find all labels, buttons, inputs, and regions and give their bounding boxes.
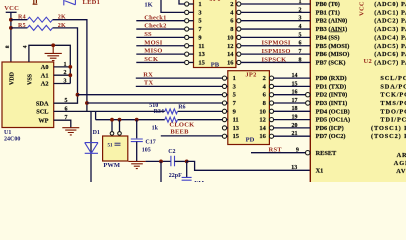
svg-text:ISPMISO: ISPMISO [262, 48, 291, 55]
svg-text:1: 1 [198, 1, 201, 8]
wire PWM pin2 drop [119, 120, 121, 132]
ground (WP) [62, 128, 79, 135]
svg-text:PB0 (T0): PB0 (T0) [316, 1, 340, 8]
svg-text:15: 15 [198, 59, 204, 66]
node VCC-R4 junction [9, 18, 13, 22]
underline on AIN1 [331, 31, 343, 33]
power VCC [4, 5, 19, 62]
capacitor C2 22pF [168, 149, 187, 179]
svg-text:13: 13 [198, 51, 204, 58]
node PWM pin2 junction [118, 118, 122, 122]
svg-text:4: 4 [299, 24, 302, 30]
net SS [136, 31, 184, 38]
svg-text:C17: C17 [145, 140, 155, 146]
svg-text:5: 5 [198, 18, 201, 25]
net MISO [136, 48, 184, 55]
svg-text:C2: C2 [168, 149, 175, 155]
pin PWM-1 circle [110, 132, 114, 136]
svg-text:AVCC: AVCC [396, 168, 406, 175]
svg-text:3: 3 [299, 16, 302, 22]
wire JP2.10 to U2.18 [274, 110, 311, 112]
svg-text:VSS: VSS [27, 73, 33, 85]
svg-text:20: 20 [292, 123, 298, 129]
svg-text:(ADC3) PA3: (ADC3) PA3 [374, 26, 406, 33]
svg-text:14: 14 [227, 51, 234, 58]
svg-text:13: 13 [233, 125, 239, 132]
wire JP1.8 to U2.4 [241, 28, 310, 30]
svg-text:8: 8 [230, 26, 233, 33]
svg-text:PWM: PWM [103, 162, 120, 169]
diode LED1 (cut off at top) [64, 0, 100, 6]
wire JP1.10 to U2.5 [241, 36, 310, 38]
svg-text:1k: 1k [152, 125, 159, 131]
svg-text:TCK/PC2: TCK/PC2 [380, 92, 406, 99]
net RX [136, 71, 223, 78]
svg-text:RESET: RESET [316, 150, 337, 157]
svg-text:15: 15 [233, 133, 239, 140]
wire SDA rail [78, 94, 223, 96]
pin 7 WP [54, 115, 71, 128]
pin 6 SCL [54, 103, 96, 112]
JP2 interior pin numbers [233, 75, 239, 140]
svg-text:WP: WP [38, 117, 48, 124]
connector JP2 body [228, 71, 270, 145]
svg-text:PB6 (MISO): PB6 (MISO) [316, 51, 350, 58]
svg-text:10: 10 [227, 34, 233, 41]
capacitor C17 105 [131, 139, 156, 161]
svg-text:2: 2 [230, 1, 233, 8]
pin 5 SDA [54, 95, 78, 104]
svg-text:16: 16 [259, 133, 266, 140]
svg-text:1: 1 [299, 0, 302, 5]
resistor R34 510 (on wire to JP2 pin9) [96, 103, 223, 115]
svg-text:CLOCK: CLOCK [169, 122, 194, 129]
svg-text:AGND: AGND [394, 160, 406, 167]
JP2 left pin circles [222, 76, 227, 138]
wire X1 net to U2 pin13 [187, 161, 310, 170]
svg-text:(TOSC1) PC6: (TOSC1) PC6 [371, 125, 406, 132]
svg-text:ISPMOSI: ISPMOSI [262, 40, 291, 47]
node VCC-R5 junction [9, 26, 13, 30]
svg-text:24C00: 24C00 [4, 137, 20, 143]
svg-text:TX: TX [144, 80, 154, 87]
svg-text:RX: RX [143, 71, 153, 78]
wire JP2.14 to U2.20 [274, 127, 311, 129]
svg-text:AREF: AREF [397, 152, 406, 159]
svg-text:PD1 (TXD): PD1 (TXD) [316, 83, 347, 90]
JP2 right pin circles [269, 76, 273, 138]
svg-text:PD: PD [246, 137, 255, 144]
svg-text:5: 5 [299, 32, 302, 38]
pin 1 A0 [54, 62, 73, 69]
svg-text:14: 14 [259, 125, 266, 132]
net Check1 [136, 14, 184, 21]
resistor fragment (cut text at top) [33, 0, 38, 4]
svg-text:(ADC4) PA4: (ADC4) PA4 [374, 34, 406, 41]
JP1 left pin circles [185, 2, 194, 65]
wire JP1.14 to U2.7 ISPMISO [241, 53, 310, 55]
svg-text:9: 9 [198, 34, 201, 41]
svg-text:SCL: SCL [36, 109, 48, 116]
svg-text:PB7 (SCK): PB7 (SCK) [316, 59, 346, 66]
wire D1 net vertical [90, 111, 92, 182]
resistor R6 1k (on CLOCK wire) [152, 117, 178, 131]
svg-text:5: 5 [233, 92, 236, 99]
svg-text:SDA: SDA [36, 100, 49, 107]
svg-text:19: 19 [292, 115, 298, 121]
svg-text:(ADC0) PA0: (ADC0) PA0 [374, 1, 406, 8]
pin 3 A2 [54, 78, 71, 84]
svg-text:A0: A0 [41, 64, 49, 71]
svg-text:3: 3 [198, 9, 201, 16]
svg-text:(ADC1) PA1: (ADC1) PA1 [374, 9, 406, 16]
pin 2 A1 [54, 70, 73, 77]
net MOSI [136, 39, 184, 46]
svg-text:7: 7 [299, 49, 302, 55]
svg-text:D1: D1 [93, 130, 100, 136]
svg-text:SCL/PC0: SCL/PC0 [380, 75, 406, 82]
svg-text:PD4 (OC1B): PD4 (OC1B) [316, 108, 350, 115]
svg-text:JP1: JP1 [210, 0, 221, 3]
wire JP2.6 to U2.16 (INT0 bubble) [274, 94, 306, 96]
svg-text:(ADC7) PA7: (ADC7) PA7 [374, 59, 406, 66]
svg-text:16: 16 [227, 59, 234, 66]
wire JP2.2 to U2.14 [274, 77, 311, 79]
svg-text:TDO/PC4: TDO/PC4 [380, 108, 406, 115]
U2 interior left labels PB [316, 1, 350, 66]
svg-text:12: 12 [259, 117, 265, 124]
capacitor C3 (bottom, cut off) [182, 161, 205, 186]
node PWM pin1 junction [110, 118, 114, 122]
svg-text:4: 4 [23, 45, 29, 48]
svg-text:PD5 (OC1A): PD5 (OC1A) [316, 117, 350, 124]
svg-text:PB2 (AIN0): PB2 (AIN0) [316, 18, 348, 25]
svg-text:8: 8 [5, 45, 11, 48]
svg-text:JP2: JP2 [245, 72, 256, 79]
wire JP2.4 to U2.15 [274, 85, 311, 87]
resistor R4 2K [11, 15, 87, 103]
svg-text:PB1 (T1): PB1 (T1) [316, 9, 340, 16]
JP1 interior pin numbers [198, 1, 204, 66]
svg-text:R6: R6 [178, 104, 185, 110]
svg-text:(ADC5) PA5: (ADC5) PA5 [374, 43, 406, 50]
wire JP1.2 to U2.1 [241, 3, 310, 5]
svg-text:8: 8 [299, 57, 302, 63]
U2 interior left labels PD [316, 75, 350, 174]
svg-text:11: 11 [233, 117, 239, 124]
svg-text:14: 14 [292, 73, 298, 79]
svg-text:12: 12 [227, 43, 233, 50]
wire JP1.16 to U2.8 ISPSCK [241, 61, 310, 63]
svg-text:TMS/PC3: TMS/PC3 [380, 100, 406, 107]
svg-text:2: 2 [299, 7, 302, 13]
wire JP1 pin1 up (to LED above frame) [179, 0, 185, 4]
svg-text:10: 10 [259, 108, 265, 115]
svg-text:PD0 (RXD): PD0 (RXD) [316, 75, 347, 82]
svg-text:22pF: 22pF [169, 173, 182, 179]
svg-text:VCC: VCC [4, 5, 19, 12]
U1 interior pin names [36, 64, 49, 124]
node SDA junction [76, 93, 80, 97]
svg-text:XM: XM [194, 181, 204, 182]
svg-text:6: 6 [299, 41, 302, 47]
svg-text:BEEB: BEEB [170, 129, 189, 136]
wire crystal left drop [160, 161, 162, 182]
connector JP1 body [194, 0, 236, 68]
svg-text:PD6 (ICP): PD6 (ICP) [316, 125, 344, 132]
U2 interior right labels (ADC port, cut off) [374, 1, 406, 66]
wire BEEB to JP2 pin15 [161, 135, 223, 137]
chip U1 24C00 body [2, 62, 54, 128]
wire JP2.12 to U2.19 [274, 119, 311, 121]
chip U2 body (cut off right) [310, 0, 406, 182]
svg-text:(ADC6) PA6: (ADC6) PA6 [374, 51, 406, 58]
node C17 junction [135, 118, 139, 122]
svg-text:U1: U1 [4, 130, 11, 136]
svg-text:U2: U2 [364, 58, 372, 65]
svg-text:11: 11 [198, 43, 204, 50]
net SCK [136, 56, 184, 63]
svg-text:PD3 (INT1): PD3 (INT1) [316, 100, 348, 107]
svg-text:1: 1 [233, 75, 236, 82]
svg-text:17: 17 [292, 98, 298, 104]
JP1 right pin circles [236, 2, 241, 65]
wire branch to PWM/clock row [95, 111, 97, 119]
svg-text:51: 51 [108, 144, 114, 149]
svg-text:PB4 (SS): PB4 (SS) [316, 34, 340, 41]
net TX [136, 80, 223, 87]
svg-text:PB: PB [211, 62, 220, 69]
svg-text:VDD: VDD [10, 71, 16, 85]
wire JP2.8 to U2.17 (INT1 bubble) [274, 102, 306, 104]
svg-text:(ADC2) PA2: (ADC2) PA2 [374, 18, 406, 25]
svg-text:(TOSC2) PC7: (TOSC2) PC7 [371, 133, 406, 140]
pin PWM-2 circle [118, 132, 122, 136]
node C2 right junction [185, 160, 189, 164]
pin 4 VSS (top) [23, 45, 71, 83]
net Check2 [136, 23, 184, 30]
svg-text:A1: A1 [41, 72, 49, 79]
svg-text:16: 16 [292, 90, 298, 96]
svg-text:18: 18 [292, 106, 298, 112]
svg-text:PD7 (OC2): PD7 (OC2) [316, 133, 346, 140]
ground (C17/C2) [128, 161, 145, 168]
wire SCL rail [87, 102, 223, 104]
diode D1 [85, 130, 100, 153]
svg-text:X1: X1 [316, 167, 324, 174]
wire JP1 pin3 to 1K resistor above frame [144, 0, 184, 12]
svg-text:13: 13 [291, 165, 297, 171]
node SCL junction [85, 101, 89, 105]
svg-text:PB5 (MOSI): PB5 (MOSI) [316, 43, 350, 50]
svg-text:VCC: VCC [359, 1, 366, 16]
wire JP1.12 to U2.6 ISPMOSI [241, 45, 310, 47]
svg-text:ISPSCK: ISPSCK [262, 56, 287, 63]
svg-text:LED1: LED1 [83, 0, 101, 6]
resistor R5 2K [11, 23, 78, 95]
wire ground to C2 [146, 160, 171, 162]
svg-text:105: 105 [142, 148, 151, 154]
svg-text:9: 9 [233, 108, 236, 115]
wire JP1.6 to U2.3 [241, 20, 310, 22]
svg-text:15: 15 [292, 81, 298, 87]
wire CLOCK row [96, 120, 223, 132]
svg-text:21: 21 [292, 131, 298, 137]
module PWM box [103, 136, 128, 169]
svg-text:3: 3 [233, 83, 236, 90]
svg-text:A2: A2 [41, 81, 49, 88]
svg-text:2: 2 [263, 75, 266, 82]
wire C17 drop [136, 120, 138, 139]
U2 interior right labels PC (cut off) [371, 75, 406, 175]
svg-text:8: 8 [263, 100, 266, 107]
svg-text:1K: 1K [144, 1, 152, 8]
svg-text:TDI/PC5: TDI/PC5 [380, 117, 406, 124]
wire JP2.16 to U2.21 [274, 135, 311, 137]
svg-text:SDA/PC1: SDA/PC1 [380, 83, 406, 90]
ground (VSS net) [45, 43, 62, 60]
net RST to U2.9 RESET (bubble) [251, 146, 310, 155]
wire JP1.4 to U2.2 [241, 11, 310, 13]
svg-text:PD2 (INT0): PD2 (INT0) [316, 92, 348, 99]
node crystal left junction [159, 160, 163, 164]
